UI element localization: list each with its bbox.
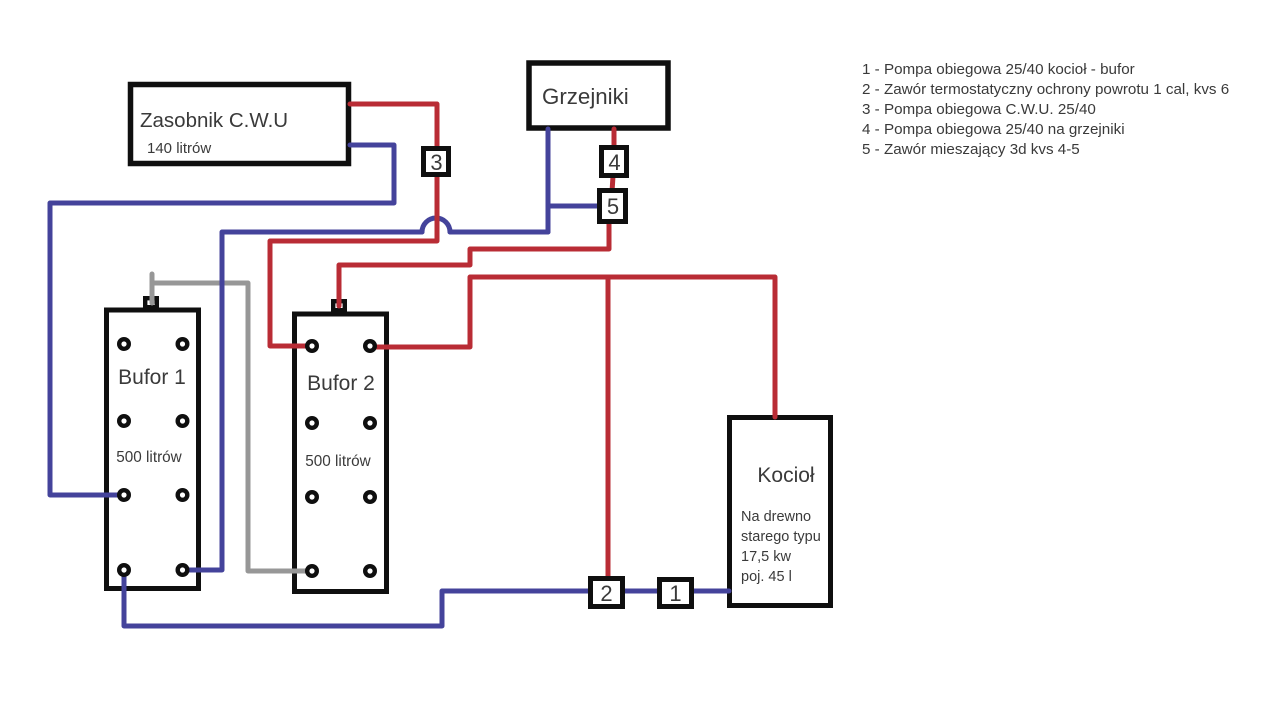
wire blue: branch to valve 5 (548, 204, 599, 209)
nub on Bufor 2 top (333, 301, 345, 310)
legend (862, 61, 1229, 158)
svg-text:500 litrów: 500 litrów (305, 453, 371, 470)
pump 1 (660, 580, 692, 607)
svg-text:140 litrów: 140 litrów (147, 140, 211, 157)
boiler Kociol (730, 418, 831, 606)
svg-text:1 - Pompa obiegowa 25/40 kocio: 1 - Pompa obiegowa 25/40 kocioł - bufor (862, 61, 1135, 78)
svg-text:Kocioł: Kocioł (757, 464, 815, 487)
wire blue: Grzejniki bottom down (546, 129, 551, 232)
svg-text:poj. 45 l: poj. 45 l (741, 569, 792, 585)
svg-text:17,5 kw: 17,5 kw (741, 549, 791, 565)
svg-text:starego typu: starego typu (741, 529, 821, 545)
wire blue: hop over red pipe (422, 218, 450, 232)
svg-text:4: 4 (608, 150, 620, 175)
svg-text:Bufor 2: Bufor 2 (307, 372, 375, 395)
tank Zasobnik C.W.U (131, 85, 349, 164)
svg-text:Na drewno: Na drewno (741, 509, 811, 525)
ports Bufor 1 (117, 337, 190, 577)
svg-text:3: 3 (430, 150, 442, 175)
valve 5 (600, 191, 626, 222)
svg-text:Bufor 1: Bufor 1 (118, 366, 186, 389)
wire blue: Grzejniki return to Bufor 1 bottom-right port (450, 230, 548, 235)
svg-text:Zasobnik C.W.U: Zasobnik C.W.U (140, 109, 288, 132)
wire blue: Zasobnik C.W.U to Bufor 1 mid-left port (50, 145, 394, 495)
wire red: valve 5 down to Bufor 2 top nub (339, 222, 609, 303)
svg-text:500 litrów: 500 litrów (116, 449, 182, 466)
wire red: Zasobnik C.W.U via pump 3 to Bufor 2 top-left port (270, 104, 437, 346)
svg-text:5 - Zawór mieszający 3d kvs 4-: 5 - Zawór mieszający 3d kvs 4-5 (862, 141, 1080, 158)
svg-text:3 - Pompa obiegowa C.W.U. 25/4: 3 - Pompa obiegowa C.W.U. 25/40 (862, 101, 1096, 118)
svg-text:5: 5 (607, 194, 619, 219)
wire blue: Bufor 1 bottom-left port to Kociol return (124, 570, 729, 626)
tank Bufor 2 (295, 314, 387, 592)
tank Bufor 1 (107, 310, 199, 589)
box Grzejniki (529, 63, 668, 128)
wire gray: Bufor 1 nub to Bufor 2 bottom-left port (152, 283, 312, 571)
wire gray: Bufor 1 top nub stub up (150, 274, 155, 304)
svg-text:2: 2 (600, 581, 612, 606)
svg-text:1: 1 (669, 581, 681, 606)
red stub into nub (337, 287, 342, 306)
svg-text:Grzejniki: Grzejniki (542, 84, 629, 109)
pump 4 (602, 148, 627, 176)
nub on Bufor 1 top (145, 298, 157, 307)
wire red: branch down to valve 2 (606, 277, 611, 578)
gray stub into nub (150, 284, 155, 303)
wire red: Bufor 2 top-right port to Kociol supply (370, 277, 775, 417)
wire blue: continue to Bufor 1 (183, 232, 422, 570)
svg-text:2 - Zawór termostatyczny ochro: 2 - Zawór termostatyczny ochrony powrotu… (862, 81, 1229, 98)
ports Bufor 2 (305, 339, 377, 578)
pump 3 (424, 149, 449, 176)
valve 2 (591, 579, 623, 607)
wire red: pump 4 to valve 5 (612, 176, 613, 192)
wire red: Grzejniki to pump 4 (612, 129, 617, 149)
svg-text:4 - Pompa obiegowa 25/40 na gr: 4 - Pompa obiegowa 25/40 na grzejniki (862, 121, 1125, 138)
